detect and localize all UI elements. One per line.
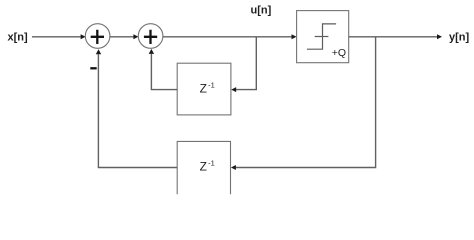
- summing junction S1: [85, 24, 110, 49]
- delay Z2 label: [200, 159, 215, 174]
- wire tap u node down to delay Z1: [231, 37, 256, 92]
- svg-text:u[n]: u[n]: [251, 5, 272, 17]
- node x[n]: [8, 32, 29, 44]
- quantizer staircase symbol: [307, 24, 336, 49]
- wire quantizer to y[n]: [349, 34, 442, 39]
- delay Z2 box (bottom edge cropped): [177, 141, 230, 194]
- quantizer U1 box: [297, 11, 349, 63]
- node y[n]: [449, 32, 470, 44]
- wire delay Z2 to S1: [96, 49, 177, 167]
- delay Z1 box: [177, 63, 231, 115]
- svg-text:+Q: +Q: [332, 47, 346, 59]
- wire tap y node down to delay Z2: [231, 37, 376, 170]
- wire input x[n] to S1: [32, 34, 86, 39]
- summing junction S2: [138, 24, 163, 49]
- delay Z1 label: [200, 80, 215, 95]
- svg-text:y[n]: y[n]: [449, 32, 470, 44]
- svg-text:x[n]: x[n]: [8, 32, 29, 44]
- minus sign on S1 lower input: [90, 67, 96, 69]
- node u[n]: [251, 5, 272, 17]
- quantizer label +Q: [332, 47, 346, 59]
- wire delay Z1 to S2: [149, 49, 178, 90]
- wire S1 to S2: [110, 34, 138, 39]
- wire S2 to quantizer: [163, 34, 297, 39]
